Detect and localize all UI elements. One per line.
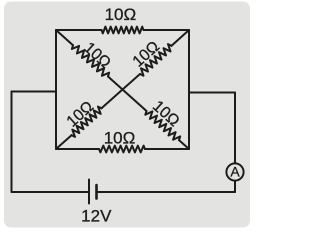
- wire right branch horizontal: [189, 92, 235, 94]
- wire right edge of bridge square: [188, 30, 190, 149]
- resistor R3 top-right diagonal 10ohm: [123, 30, 190, 90]
- wire left edge of bridge square: [55, 30, 57, 149]
- resistor R4 bottom-left diagonal 10ohm: [56, 90, 123, 150]
- resistor R5 bottom-right diagonal 10ohm: [123, 90, 190, 150]
- svg-text:12V: 12V: [81, 207, 112, 226]
- battery B1 12V: [89, 180, 97, 204]
- svg-text:10Ω: 10Ω: [105, 5, 137, 24]
- wire left branch horizontal: [12, 91, 57, 93]
- wire battery to ammeter bottom: [98, 191, 235, 193]
- wire bottom left to battery: [12, 191, 88, 193]
- wire right branch vertical to ammeter: [234, 93, 236, 164]
- svg-text:10Ω: 10Ω: [104, 128, 136, 147]
- svg-text:A: A: [230, 164, 240, 180]
- resistor R6 bottom 10ohm: [56, 146, 189, 153]
- wire left branch vertical: [11, 92, 13, 193]
- resistor R2 top-left diagonal 10ohm: [56, 30, 123, 90]
- resistor R1 top 10ohm: [56, 27, 189, 34]
- background card: [4, 2, 250, 228]
- wire ammeter bottom vertical: [234, 181, 236, 192]
- ammeter A1 circle: [226, 163, 243, 180]
